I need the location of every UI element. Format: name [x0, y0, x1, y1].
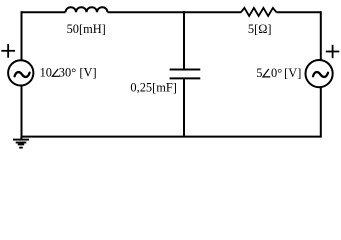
label 5 angle 0deg V : angle symbol [263, 69, 270, 77]
AC source V1 sine symbol [15, 72, 30, 77]
plus sign left [1, 44, 15, 58]
svg-text:5[Ω]: 5[Ω] [248, 22, 272, 36]
svg-text:10: 10 [40, 66, 52, 80]
svg-text:0°: 0° [271, 66, 282, 80]
svg-text:5: 5 [256, 66, 262, 80]
wire capacitor branch upper [183, 11, 185, 69]
wire top-middle segment [108, 11, 242, 13]
wire top-left segment [22, 11, 66, 13]
svg-text:50[mH]: 50[mH] [67, 22, 106, 36]
ground [13, 137, 29, 148]
wire capacitor branch lower [183, 78, 185, 136]
wire right vertical lower [320, 87, 322, 137]
plus sign right [326, 45, 340, 58]
svg-text:0,25[mF]: 0,25[mF] [130, 80, 176, 94]
wire bottom rail [21, 136, 322, 138]
wire right vertical upper [320, 11, 322, 60]
svg-text:[V]: [V] [79, 66, 96, 80]
svg-text:30°: 30° [59, 66, 76, 80]
AC source V2 sine symbol [313, 72, 328, 77]
inductor L1 [66, 7, 108, 12]
label 10 angle 30deg V : angle symbol [52, 69, 59, 76]
capacitor C1 bottom plate [170, 77, 201, 79]
capacitor C1 top plate [170, 69, 201, 71]
AC source V1 circle [8, 60, 33, 85]
resistor R1 [241, 8, 276, 16]
svg-text:[V]: [V] [284, 66, 301, 80]
AC source V2 circle [306, 60, 333, 87]
wire left vertical upper [21, 11, 23, 61]
wire left vertical lower [21, 85, 23, 137]
wire top-right segment [276, 11, 320, 13]
